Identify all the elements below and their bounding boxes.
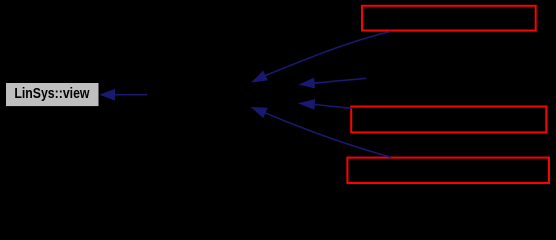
- node bottom (red truncated node): [347, 158, 549, 183]
- node middle (red truncated node): [351, 107, 546, 133]
- node LinSys::view (current node, gray): [6, 83, 99, 106]
- node B (invisible right node, black border/text on black): [367, 66, 545, 92]
- svg-text:LinSys::view: LinSys::view: [14, 85, 89, 101]
- edge B -> A: [300, 78, 367, 88]
- edge A -> LinSys::view: [101, 90, 147, 100]
- edge top -> A: [253, 31, 392, 82]
- edge bottom -> A: [252, 108, 391, 158]
- node A (invisible middle node, black border/text on black): [147, 84, 300, 107]
- edge middle -> A: [299, 100, 351, 109]
- node top (red truncated node): [362, 6, 536, 31]
